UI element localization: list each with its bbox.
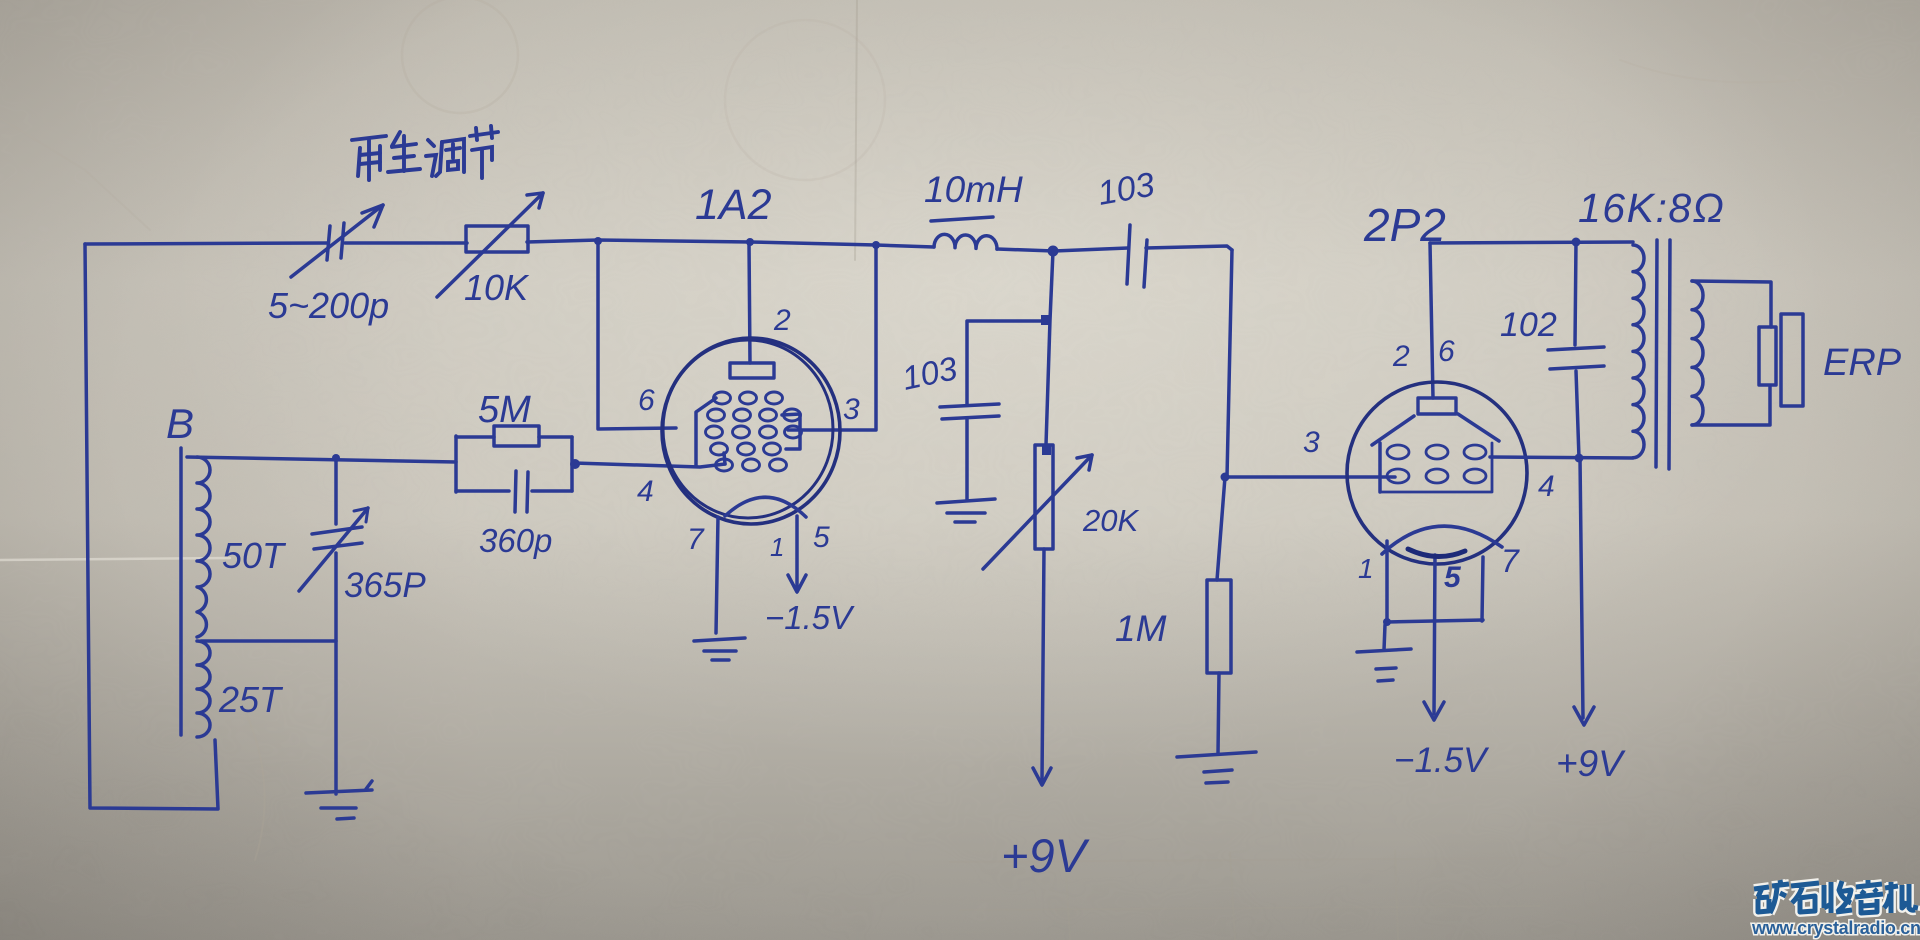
svg-text:360p: 360p [479, 522, 552, 559]
svg-text:4: 4 [637, 475, 654, 508]
svg-text:365P: 365P [344, 566, 426, 605]
svg-text:ERP: ERP [1823, 342, 1902, 384]
svg-text:7: 7 [687, 523, 705, 556]
svg-text:6: 6 [638, 384, 655, 417]
svg-text:+9V: +9V [1001, 829, 1090, 882]
svg-text:3: 3 [1303, 426, 1320, 459]
svg-text:50T: 50T [222, 535, 287, 576]
svg-text:−1.5V: −1.5V [765, 599, 855, 636]
svg-text:102: 102 [1500, 306, 1557, 344]
svg-text:3: 3 [843, 393, 860, 426]
svg-text:20K: 20K [1082, 503, 1139, 538]
svg-text:1: 1 [1358, 553, 1374, 584]
svg-text:5~200p: 5~200p [268, 285, 389, 326]
svg-text:16K:8Ω: 16K:8Ω [1578, 185, 1725, 231]
svg-text:+9V: +9V [1556, 743, 1626, 784]
svg-text:10K: 10K [464, 267, 530, 308]
svg-text:www.crystalradio.cn: www.crystalradio.cn [1751, 918, 1920, 938]
svg-text:1M: 1M [1115, 608, 1167, 649]
svg-text:−1.5V: −1.5V [1394, 741, 1490, 780]
svg-text:4: 4 [1538, 470, 1555, 503]
svg-text:5: 5 [813, 521, 830, 554]
svg-text:1: 1 [770, 532, 784, 562]
svg-text:B: B [166, 400, 194, 447]
svg-text:6: 6 [1438, 335, 1455, 368]
svg-text:10mH: 10mH [924, 169, 1023, 210]
svg-text:7: 7 [1501, 543, 1520, 579]
svg-text:5M: 5M [478, 389, 531, 431]
svg-text:2: 2 [773, 304, 791, 337]
svg-text:1A2: 1A2 [695, 181, 772, 229]
svg-text:2P2: 2P2 [1363, 199, 1446, 251]
svg-text:2: 2 [1392, 340, 1410, 373]
svg-text:25T: 25T [218, 679, 284, 720]
svg-text:5: 5 [1444, 561, 1462, 594]
